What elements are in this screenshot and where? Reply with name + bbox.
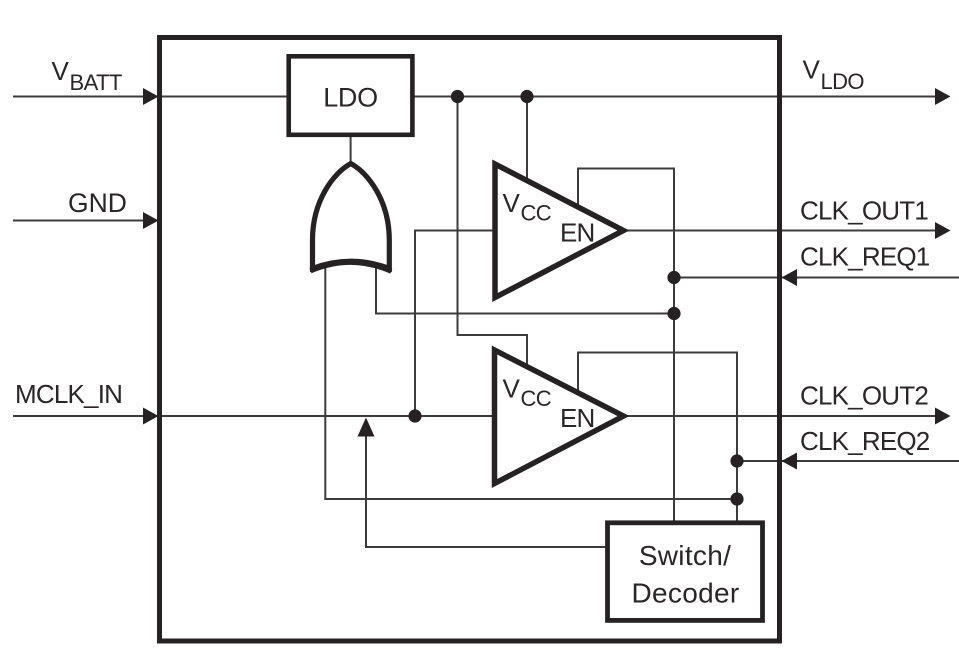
wire MCLK_IN input line <box>13 415 494 417</box>
wire CLK_OUT2 output line <box>624 415 938 417</box>
junction dot EN2 to OR input <box>730 492 743 505</box>
svg-text:LDO: LDO <box>323 83 378 113</box>
arrowhead CLK_OUT1 output <box>935 222 951 239</box>
arrowhead CLK_REQ1 into box <box>782 269 798 286</box>
label V_BATT <box>52 56 122 95</box>
svg-text:CLK_REQ1: CLK_REQ1 <box>800 242 930 272</box>
svg-text:EN: EN <box>560 218 595 248</box>
svg-text:V: V <box>503 374 521 404</box>
wire MCLK to buffer 1 input <box>415 231 494 417</box>
OR gate input-edge arc <box>311 262 392 271</box>
arrowhead CLK_REQ2 into box <box>782 453 798 470</box>
svg-text:CLK_OUT2: CLK_OUT2 <box>800 381 928 411</box>
wire Switch/Decoder to MCLK line <box>366 420 607 547</box>
svg-text:CLK_REQ2: CLK_REQ2 <box>800 426 930 456</box>
block LDO <box>289 56 413 135</box>
wire buffer 2 EN feedback <box>578 353 737 523</box>
wire CLK_OUT1 output line <box>624 230 938 232</box>
svg-text:LDO: LDO <box>821 69 865 94</box>
wire Vcc supply to buffer 2 <box>458 97 528 368</box>
junction dot CLK_REQ1 node <box>667 271 680 284</box>
junction dot CLK_REQ2 node <box>730 454 743 467</box>
wire LDO to OR gate <box>350 136 352 166</box>
junction dot on V_LDO line node A <box>451 90 464 103</box>
junction dot on MCLK line <box>408 409 421 422</box>
wire CLK_REQ2 line <box>737 460 959 462</box>
svg-text:EN: EN <box>560 403 595 433</box>
svg-text:V: V <box>52 56 70 86</box>
arrowhead CLK_OUT2 output <box>935 408 951 425</box>
buffer U3 (CLK_OUT2) <box>495 350 624 484</box>
OR gate <box>313 164 390 269</box>
svg-text:Switch/: Switch/ <box>639 540 731 571</box>
wire buffer 1 EN feedback <box>578 169 674 523</box>
wire V_LDO output line <box>413 96 938 98</box>
block Switch/Decoder <box>608 523 763 621</box>
arrowhead MCLK_IN into box <box>143 408 159 425</box>
svg-text:Decoder: Decoder <box>632 578 740 609</box>
svg-text:MCLK_IN: MCLK_IN <box>15 379 122 409</box>
wire GND input line <box>13 220 157 222</box>
wire CLK_REQ1 line <box>674 277 959 279</box>
svg-text:V: V <box>503 188 521 218</box>
svg-text:BATT: BATT <box>70 70 122 95</box>
arrowhead Switch/Decoder up to MCLK line <box>358 418 375 437</box>
svg-text:V: V <box>803 55 821 85</box>
wire OR gate right input from node EN1 <box>376 264 674 314</box>
junction dot EN1 to OR input <box>667 307 680 320</box>
wire Vcc supply to buffer 1 <box>526 97 528 182</box>
svg-text:CC: CC <box>521 386 552 411</box>
junction dot on V_LDO line node B <box>520 90 533 103</box>
svg-text:CLK_OUT1: CLK_OUT1 <box>800 196 928 226</box>
wire V_BATT input line <box>13 96 288 98</box>
svg-text:GND: GND <box>68 188 127 218</box>
outer box IC boundary <box>160 38 780 642</box>
wire OR gate left input from node EN2 <box>325 264 737 499</box>
buffer U2 (CLK_OUT1) <box>495 164 624 298</box>
arrowhead V_LDO output <box>935 88 951 105</box>
svg-text:CC: CC <box>521 201 552 226</box>
arrowhead V_BATT into box <box>143 88 159 105</box>
arrowhead GND into box <box>143 212 159 229</box>
label V_LDO <box>803 55 865 95</box>
